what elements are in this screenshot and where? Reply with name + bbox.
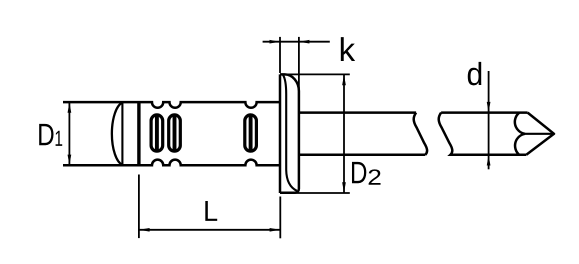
- label k glyph: [341, 37, 355, 61]
- mandrel tip point slants: [526, 113, 554, 155]
- dimension d arrow down (above stem): [487, 102, 491, 113]
- dimension L line: [139, 229, 280, 231]
- crimp slot 1: [151, 115, 163, 151]
- mandrel stem right segment bottom line: [453, 154, 527, 157]
- mandrel stem left segment top line: [299, 111, 416, 114]
- flange left face: [279, 74, 282, 193]
- mandrel tip cone-base lobes: [515, 113, 525, 155]
- dimension D2 arrow up: [342, 75, 346, 86]
- label L glyph: [205, 201, 217, 221]
- rivet body top outline with crimp notches: [63, 102, 280, 108]
- dimension D2 extension line top: [280, 73, 350, 75]
- label D2 glyph 2: [369, 169, 381, 184]
- label D2 glyph D: [352, 162, 366, 183]
- dimension k arrow pointing left: [299, 40, 310, 44]
- label d glyph: [468, 62, 482, 86]
- dimension D1 arrow down: [68, 155, 72, 166]
- body dome base line: [121, 102, 123, 165]
- crimp slot 3: [245, 115, 257, 151]
- label D1 glyph 1: [56, 131, 63, 146]
- flange outline: top edge, rounded rim, right face, bottom edge: [280, 74, 299, 192]
- dimension D1 arrow up: [68, 102, 72, 113]
- mandrel tip centerline: [525, 133, 553, 135]
- dimension D2 arrow down: [342, 182, 346, 193]
- rivet body bottom outline with crimp notches: [63, 160, 280, 166]
- mandrel stem right segment top line: [441, 111, 527, 114]
- crimp slot 2: [169, 115, 181, 151]
- dimension L extension line right: [279, 197, 281, 239]
- dimension k extension line right: [298, 37, 300, 90]
- body thick set line: [137, 102, 140, 165]
- stem break edge (right piece): [439, 113, 453, 155]
- stem break edge (left piece): [414, 113, 427, 155]
- dimension L arrow left: [139, 228, 150, 232]
- dimension L arrow right: [270, 228, 281, 232]
- mandrel stem left segment bottom line: [299, 154, 425, 157]
- flange dome face line: [283, 75, 297, 191]
- dimension k extension line left: [279, 37, 281, 73]
- dimension D1 line: [68, 102, 70, 165]
- dimension D2 line: [343, 74, 345, 193]
- dimension L extension line left: [138, 175, 140, 239]
- dimension D2 extension line bottom: [280, 192, 350, 194]
- body left dome arc: [112, 103, 123, 165]
- dimension d arrow up (below stem): [487, 155, 491, 166]
- dimension k arrow pointing right: [270, 40, 281, 44]
- label D1 glyph D: [39, 124, 53, 145]
- dimension d line: [488, 71, 490, 169]
- dimension k line: [263, 41, 330, 43]
